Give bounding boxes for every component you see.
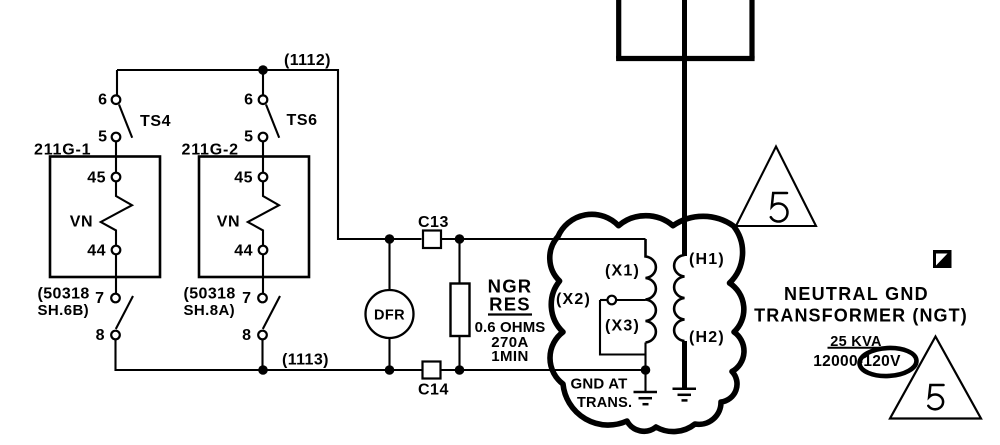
svg-text:6: 6 [98, 92, 107, 109]
svg-text:(X1): (X1) [605, 263, 640, 280]
switch TS4 terminal 5 [112, 133, 121, 142]
wire H2 lead down (thick) [682, 341, 687, 388]
svg-text:211G-1: 211G-1 [34, 142, 91, 159]
wire 5 to 45 (211G-2) [262, 142, 264, 173]
terminal 44 (211G-2) [259, 246, 268, 255]
wire (1112) horizontal top [117, 69, 338, 71]
connector C13 [423, 231, 441, 249]
svg-text:(H2): (H2) [689, 329, 725, 346]
svg-text:7: 7 [95, 290, 104, 307]
svg-text:6: 6 [244, 92, 253, 109]
ground symbol (H winding) [673, 387, 697, 390]
digit 5 (lower note) [928, 385, 943, 409]
bus rectangle left side [616, 0, 621, 59]
wire top line NGR to X1 [460, 238, 646, 240]
switch terminal 7 (211G-2) [258, 294, 267, 303]
wire down to ground symbol [644, 370, 646, 391]
winding H (primary) [674, 255, 684, 341]
node NGR top [455, 234, 465, 244]
svg-text:TRANSFORMER (NGT): TRANSFORMER (NGT) [754, 306, 968, 326]
switch blade 7-8 (211G-1) [116, 296, 133, 329]
svg-text:C14: C14 [418, 382, 449, 399]
svg-text:(50318: (50318 [184, 286, 236, 303]
wire TS4 drop [116, 70, 118, 97]
wire DFR bottom lead [388, 338, 390, 371]
transformer cloud outline [550, 214, 744, 431]
resistor NGR RES [451, 284, 470, 337]
wire DFR top lead [388, 239, 390, 291]
terminal 45 (211G-2) [259, 173, 268, 182]
switch terminal 8 (211G-1) [111, 331, 120, 340]
svg-text:12000-120V: 12000-120V [813, 353, 901, 370]
switch blade 7-8 (211G-2) [263, 296, 280, 329]
svg-text:44: 44 [234, 242, 253, 259]
node ground junction [641, 365, 651, 375]
svg-text:(50318: (50318 [38, 286, 90, 303]
digit 5 (upper note) [771, 193, 788, 222]
svg-text:8: 8 [242, 327, 251, 344]
svg-text:SH.6B): SH.6B) [38, 302, 90, 319]
switch TS4 blade [119, 105, 132, 138]
wire NGR top lead [458, 239, 460, 284]
switch TS6 terminal 6 [259, 95, 268, 104]
resistor VN (211G-2) zigzag [248, 182, 279, 246]
svg-text:VN: VN [217, 214, 240, 231]
underline 25 KVA [828, 347, 884, 349]
underline RES [488, 313, 532, 315]
svg-text:(H1): (H1) [689, 251, 725, 268]
wire X2 loop down [600, 300, 646, 355]
svg-text:SH.8A): SH.8A) [184, 302, 236, 319]
svg-text:7: 7 [242, 290, 251, 307]
tap wire X2 to coil [616, 299, 646, 301]
svg-text:8: 8 [96, 327, 105, 344]
wire 1113 C14 to NGR bottom [441, 369, 460, 371]
terminal 45 (211G-1) [112, 173, 121, 182]
switch terminal 7 (211G-1) [111, 294, 120, 303]
wire 1113 to ground junction in cloud [460, 369, 646, 371]
note triangle 5 (upper) [736, 147, 816, 227]
wire NGR bottom lead [458, 336, 460, 370]
terminal X2 circle [608, 296, 617, 305]
svg-text:TRANS.: TRANS. [577, 395, 632, 411]
box 211G-1 [50, 157, 160, 278]
wire X3 end down to ground node [644, 343, 646, 371]
node DFR top [385, 234, 395, 244]
wire 8 down (211G-2) [261, 340, 263, 371]
wire (1113) bottom horizontal [263, 369, 422, 371]
note triangle 5 (lower) [890, 337, 981, 419]
svg-text:5: 5 [98, 129, 107, 146]
wire 5 to 45 [115, 142, 117, 173]
wire 8 down to 1113 [116, 340, 264, 371]
svg-text:211G-2: 211G-2 [182, 142, 239, 159]
svg-text:GND AT: GND AT [571, 376, 628, 393]
svg-text:DFR: DFR [374, 308, 405, 324]
winding X (secondary) [646, 239, 656, 343]
svg-text:5: 5 [244, 129, 253, 146]
svg-text:(X2): (X2) [556, 291, 591, 308]
switch TS6 blade [266, 105, 279, 138]
resistor VN (211G-1) zigzag [101, 182, 132, 246]
node NGR bottom [455, 365, 465, 375]
svg-text:45: 45 [87, 169, 106, 186]
svg-text:45: 45 [234, 169, 253, 186]
node DFR bottom [385, 365, 395, 375]
svg-text:(1113): (1113) [282, 352, 329, 369]
switch terminal 8 (211G-2) [258, 331, 267, 340]
bus rectangle bottom side [616, 56, 755, 61]
node 1113 at TS6 chain [258, 365, 268, 375]
svg-text:44: 44 [87, 242, 106, 259]
svg-text:TS6: TS6 [287, 112, 318, 129]
svg-text:RES: RES [489, 294, 531, 315]
connector C14 [423, 362, 441, 379]
wire 44 to 7 (211G-2) [262, 255, 264, 294]
switch TS6 terminal 5 [259, 133, 268, 142]
svg-text:VN: VN [70, 214, 93, 231]
bus rectangle right side [749, 0, 754, 59]
svg-text:(X3): (X3) [605, 318, 640, 335]
svg-text:NEUTRAL GND: NEUTRAL GND [784, 284, 929, 304]
wire top line C13 to NGR [441, 238, 460, 240]
box 211G-2 [199, 157, 309, 278]
svg-text:1MIN: 1MIN [491, 348, 528, 365]
wire X2 loop left [600, 299, 608, 301]
flag marker icon [933, 250, 952, 268]
svg-text:TS4: TS4 [140, 113, 171, 130]
switch TS4 terminal 6 [112, 95, 121, 104]
annotation ellipse around 120V [859, 347, 917, 378]
terminal 44 (211G-1) [112, 246, 121, 255]
relay DFR [366, 290, 414, 338]
svg-text:C13: C13 [418, 214, 449, 231]
wire TS6 drop [262, 70, 264, 97]
svg-text:(1112): (1112) [284, 52, 331, 69]
node junction 1112 [258, 65, 268, 75]
ground symbol (GND AT TRANS) [634, 391, 658, 394]
wire 1112 corner down to C13 line [338, 69, 422, 239]
wire H1 primary lead (thick) [682, 0, 687, 256]
wire 44 to 7 [115, 255, 117, 294]
